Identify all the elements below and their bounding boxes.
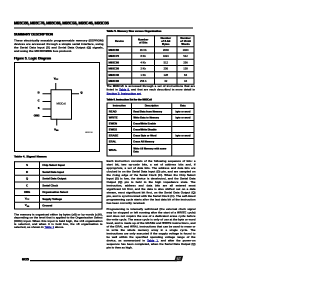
table 4 caption (14, 155, 47, 159)
pin Q wire (72, 93, 80, 94)
header rule (14, 28, 193, 29)
VSS wire (56, 119, 57, 126)
figure 5 frame (14, 62, 100, 152)
VCC label (51, 77, 61, 81)
pin D label (30, 92, 40, 95)
pin S label (30, 107, 40, 110)
figure 5 caption (14, 57, 51, 61)
table 5 Memory Size versus Organization (107, 35, 195, 85)
table 6 Instruction Set (107, 103, 195, 157)
VCC wire (55, 83, 56, 90)
pin ORG label (30, 114, 40, 117)
header part numbers (14, 21, 106, 26)
pin S wire (43, 109, 51, 110)
footer rule (30, 260, 177, 261)
heading SUMMARY DESCRIPTION (14, 33, 53, 37)
right paragraph A (107, 159, 196, 205)
footer page number 6/35 (22, 257, 29, 261)
note paragraph under table 5 (107, 85, 196, 96)
paragraph below table 4 (14, 213, 103, 229)
pin C label (30, 99, 40, 102)
chip box M93C46 (51, 89, 73, 120)
paragraph 1 (14, 39, 104, 53)
table 5 caption (107, 30, 162, 33)
figure ref AI01150 (85, 131, 92, 133)
table 4 Signal Names (14, 161, 103, 209)
pin Q label (81, 91, 83, 94)
VSS label (51, 128, 61, 132)
table 6 caption (107, 98, 152, 101)
ST logo (174, 256, 183, 262)
pin ORG wire (43, 116, 51, 117)
pin C wire (43, 101, 51, 102)
pin D wire (43, 93, 51, 94)
right paragraph B (107, 208, 196, 250)
